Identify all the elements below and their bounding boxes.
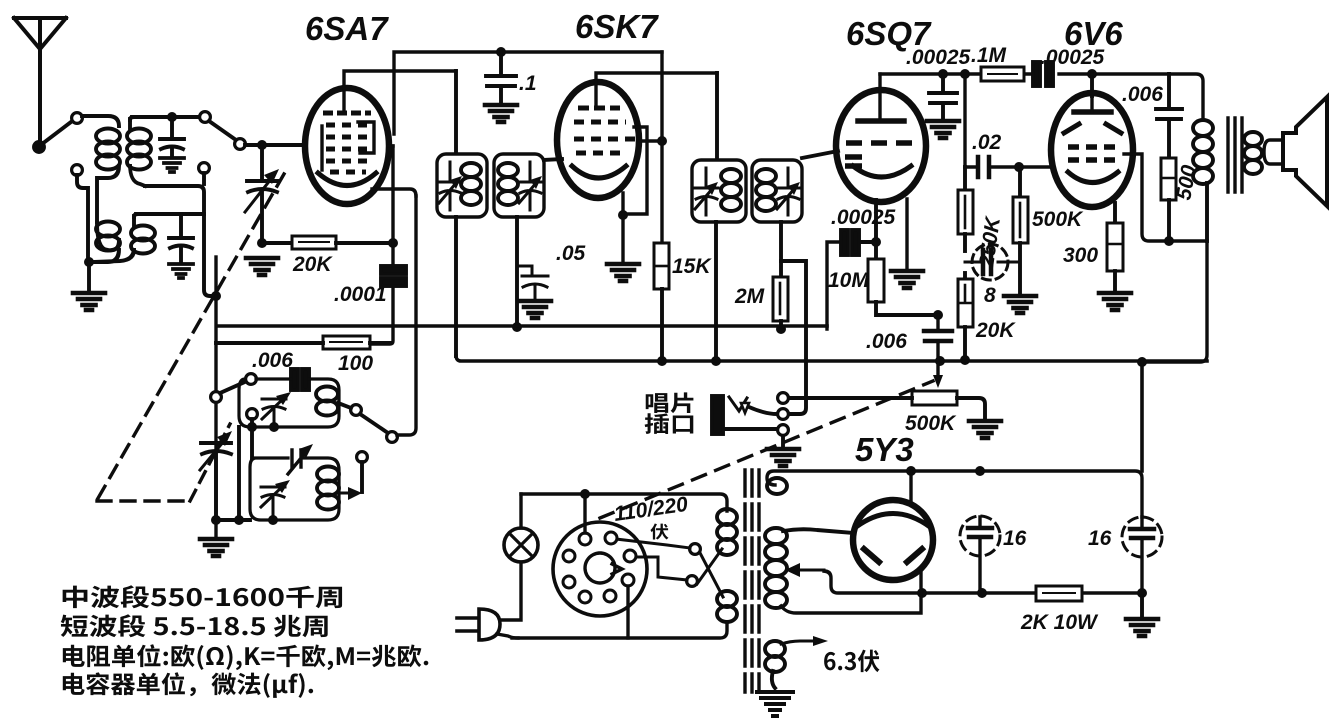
svg-text:6V6: 6V6 <box>1064 15 1123 52</box>
wire 6SQ7 plate top run <box>880 74 1203 120</box>
svg-text:.02: .02 <box>972 131 1002 154</box>
antenna terminal node <box>34 142 44 152</box>
node <box>211 515 221 525</box>
resistor 100 <box>323 336 370 349</box>
wire 500K to ground <box>1018 243 1022 294</box>
label 8 <box>984 284 996 307</box>
wire IFT2 to 6SQ7 <box>802 151 838 158</box>
ground <box>969 421 1001 438</box>
wire 15K to B+ bus <box>660 289 664 362</box>
label 20K <box>292 253 333 276</box>
IFT1 primary trimmer <box>438 162 462 210</box>
svg-text:.1: .1 <box>519 72 537 95</box>
wire IFT1 primary return to B+ <box>454 217 458 356</box>
svg-text:20K: 20K <box>975 319 1016 342</box>
label .1M <box>971 44 1007 67</box>
IFT2 secondary box <box>752 160 802 222</box>
node <box>917 588 927 598</box>
speaker <box>1264 97 1327 206</box>
resistor 10M <box>868 259 884 302</box>
6SK7 cathode lead <box>621 193 624 262</box>
svg-text:8: 8 <box>984 284 996 307</box>
dashed gang line left <box>97 174 284 500</box>
AVC bus <box>217 324 827 328</box>
label 电阻单位 <box>63 644 429 670</box>
wire 6V6 grid lead <box>1090 74 1094 96</box>
label 250K <box>975 214 1005 270</box>
wire IFT2 primary return <box>714 222 718 362</box>
dashed gang line bottom <box>97 499 190 502</box>
5Y3 plate lead <box>909 471 912 504</box>
HV secondary winding <box>765 528 787 608</box>
switch contact <box>247 409 258 420</box>
oscillator grid leak line <box>370 146 393 344</box>
6SK7 screen wire <box>640 139 662 142</box>
svg-text:20K: 20K <box>292 253 333 276</box>
resistor 20K <box>292 236 336 249</box>
6V6 internal grids <box>1068 147 1115 160</box>
band switch arm S1a <box>42 122 71 144</box>
bottom wire osc <box>216 518 250 522</box>
label 16 <box>1088 527 1112 550</box>
node <box>935 356 945 366</box>
label 唱片 <box>646 392 694 413</box>
6SQ7 plate lead and bar <box>858 74 904 121</box>
wire IFT1 secondary return <box>515 217 519 326</box>
switch contact SW osc tap <box>357 452 368 463</box>
svg-text:.006: .006 <box>1122 83 1163 106</box>
node <box>1137 588 1147 598</box>
socket pin lead top <box>583 494 586 533</box>
label .00025 <box>831 206 896 229</box>
B+ drop wire <box>1140 362 1144 471</box>
selector wire upper <box>616 539 690 548</box>
node <box>388 238 398 248</box>
oscillator MW trimmer <box>262 392 291 427</box>
wire MW box to bottom <box>237 427 241 520</box>
capacitor .006 plate bypass <box>1156 74 1182 158</box>
HV winding bottom lead <box>781 568 921 613</box>
oscillator switch arm <box>220 381 247 393</box>
node <box>496 47 506 57</box>
tube 6SA7 envelope <box>305 88 389 204</box>
label 500K <box>905 412 957 435</box>
node <box>938 69 948 79</box>
node <box>167 112 177 122</box>
6SA7 plate lead <box>344 71 456 110</box>
resistor 2K10W <box>1036 586 1082 601</box>
wire cap to grid node <box>859 200 876 259</box>
IFT1 secondary coil <box>498 163 518 205</box>
svg-text:.00025: .00025 <box>831 206 896 229</box>
node <box>960 355 970 365</box>
label .00025 <box>906 46 971 69</box>
node <box>580 489 590 499</box>
filter capacitor 16 input <box>960 516 1000 593</box>
wire AVC dropper <box>963 74 966 167</box>
node <box>871 237 881 247</box>
volume potentiometer 500K <box>912 391 957 405</box>
phono jack plug symbol <box>729 397 749 413</box>
label 2K10W <box>1020 611 1099 634</box>
resistor 500K grid <box>1013 167 1028 243</box>
wire pot to ground <box>957 398 985 419</box>
label 6.3伏 <box>824 650 879 673</box>
node <box>257 238 267 248</box>
svg-text:.05: .05 <box>556 242 586 265</box>
label 15K <box>672 255 712 278</box>
label 6SA7 <box>305 10 389 47</box>
ground <box>1126 619 1158 636</box>
svg-text:5Y3: 5Y3 <box>855 431 914 468</box>
wire jack sleeve <box>723 427 777 431</box>
oscillator SW coil <box>317 467 339 510</box>
selector wire lower <box>634 557 687 580</box>
wire 2M to AVC bus <box>779 321 783 329</box>
label 16 <box>1003 527 1027 550</box>
HV top loop <box>767 478 787 494</box>
6SA7 internal grids <box>323 113 371 172</box>
6SK7 internal grids <box>574 108 637 153</box>
pilot lamp <box>504 528 538 562</box>
wire to main ground <box>1140 596 1144 617</box>
grid row exit right <box>372 146 416 196</box>
node <box>657 136 667 146</box>
resistor .1M <box>981 67 1024 81</box>
transformer core <box>1228 118 1242 192</box>
node <box>906 466 916 476</box>
switch contact <box>211 392 222 403</box>
lamp leads <box>497 494 521 620</box>
wire to grid <box>245 143 306 147</box>
tube 6SQ7 envelope <box>836 90 926 202</box>
phono contact <box>778 393 789 404</box>
trimmer capacitor C2 <box>169 214 193 262</box>
node <box>247 422 257 432</box>
HV secondary top wire <box>767 471 1142 517</box>
tube 6SK7 envelope <box>557 82 639 198</box>
wire <box>336 241 393 245</box>
6V6 grid bar <box>1074 96 1111 112</box>
dashed gang line to volume <box>600 381 933 518</box>
wire 6SK7 plate to IFT2 <box>715 73 719 160</box>
left spine <box>214 296 217 537</box>
oscillator grid riser <box>397 196 416 435</box>
coil L4 RF secondary SW <box>93 216 155 262</box>
node <box>618 210 628 220</box>
svg-text:.1M: .1M <box>971 44 1007 67</box>
wire contact down <box>250 419 254 458</box>
ground <box>169 264 193 278</box>
socket center keyway <box>585 553 622 583</box>
tube socket circle <box>553 522 647 616</box>
wire 6SA7 plate to IFT1 <box>454 71 458 154</box>
6SA7 cathode arc <box>318 173 376 186</box>
node <box>512 322 522 332</box>
label 6V6 <box>1064 15 1123 52</box>
variable capacitor oscillator C4 <box>200 431 232 520</box>
choke output wire <box>824 571 1142 593</box>
filament bottom to ground <box>772 671 775 688</box>
socket pins <box>563 532 636 603</box>
label 5Y3 <box>855 431 914 468</box>
phono contact <box>778 409 789 420</box>
node <box>234 515 244 525</box>
ground <box>767 449 799 466</box>
resistor 15K <box>654 243 669 289</box>
label 500K <box>1032 208 1084 231</box>
resistor 20K cathode <box>958 273 973 327</box>
resistor 500 <box>1161 158 1176 200</box>
switch contact <box>200 112 211 123</box>
capacitor .00025 diode <box>841 230 859 255</box>
antenna <box>14 18 66 140</box>
node <box>211 291 221 301</box>
6V6 cathode lead <box>1113 203 1117 223</box>
node <box>1137 357 1147 367</box>
AVC bus riser <box>827 242 841 329</box>
svg-text:.0001: .0001 <box>334 283 387 306</box>
voltage selector crossover <box>697 549 723 597</box>
tube 5Y3 envelope <box>853 500 933 580</box>
wire 10M to .006 <box>876 302 938 315</box>
socket pin lead bottom <box>626 586 629 638</box>
switch contact <box>72 113 83 124</box>
ground <box>891 271 923 288</box>
label .02 <box>972 131 1002 154</box>
switch contact <box>351 405 362 416</box>
ground <box>519 301 551 318</box>
wire 300 to ground <box>1113 271 1117 291</box>
switch contact <box>235 139 246 150</box>
label .05 <box>556 242 586 265</box>
IFT2 secondary trimmer <box>776 168 800 215</box>
ground <box>246 258 278 275</box>
capacitor .05 <box>517 266 548 299</box>
wire <box>87 262 91 291</box>
oscillator SW box <box>250 458 339 520</box>
label 10M <box>828 269 869 292</box>
screen supply drop wire <box>660 52 663 243</box>
svg-text:6SQ7: 6SQ7 <box>846 15 932 52</box>
label 6SK7 <box>575 8 659 45</box>
wire lower RF unit bottom <box>145 186 216 296</box>
filter capacitor 16 output <box>1122 517 1162 596</box>
selector contact <box>690 544 701 555</box>
wire arrow to volume wiper <box>933 361 943 388</box>
wire to phono tap <box>781 261 806 414</box>
label 电容器单位 <box>63 672 313 698</box>
ground heater <box>757 692 793 716</box>
IFT2 secondary coil <box>756 169 776 211</box>
ground <box>160 158 184 172</box>
switch contact <box>246 374 257 385</box>
label 500K pot <box>0 0 2 2</box>
oscillator SW series cap <box>288 444 313 474</box>
capacitor .00025 coupling <box>1033 62 1053 86</box>
coil L2 antenna SW primary <box>92 222 120 263</box>
node <box>933 310 943 320</box>
wire contact to ground <box>781 436 785 447</box>
left spine riser <box>214 257 217 296</box>
6V6 cathode arc <box>1068 172 1118 183</box>
label .1 <box>519 72 537 95</box>
wire coil to contact <box>338 403 351 408</box>
node <box>1087 69 1097 79</box>
phono jack body <box>712 396 723 434</box>
switch contact <box>72 165 83 176</box>
svg-text:15K: 15K <box>672 255 712 278</box>
label 300 <box>1063 244 1098 267</box>
capacitor .006 volume coupling <box>924 315 952 361</box>
capacitor .0001 <box>381 266 406 286</box>
ground <box>927 121 959 138</box>
label .006 <box>866 330 907 353</box>
node <box>269 422 279 432</box>
band switch arm S1b <box>209 121 236 140</box>
trimmer capacitor C1 <box>160 117 184 156</box>
wire transformer return <box>1142 241 1207 362</box>
ground <box>73 293 105 310</box>
wire 20K to bus <box>963 327 967 360</box>
IFT1 secondary trimmer <box>518 162 542 210</box>
wire stub <box>202 173 206 184</box>
6SQ7 cathode arc <box>853 166 911 177</box>
wire 250K to bias cell <box>963 234 967 251</box>
wire RF secondary top <box>130 117 200 120</box>
label 伏 <box>650 524 668 540</box>
6V6 plate wire <box>1124 154 1207 241</box>
node <box>711 356 721 366</box>
6SA7 right grid bracket <box>358 122 374 153</box>
node <box>977 588 987 598</box>
resistor 300 <box>1107 223 1123 271</box>
power transformer core <box>745 470 759 692</box>
label 100 <box>338 352 373 375</box>
svg-text:16: 16 <box>1003 527 1027 550</box>
6SK7 suppressor hook <box>623 127 647 214</box>
wire 500 to plate line <box>1167 200 1171 241</box>
oscillator MW coil <box>316 387 338 416</box>
svg-text:300: 300 <box>1063 244 1098 267</box>
IFT2 primary coil <box>721 169 741 211</box>
switch contact SW tap <box>199 163 210 174</box>
5Y3 anode arc <box>856 514 930 528</box>
resistor 250K <box>958 167 973 234</box>
label 6SQ7 <box>846 15 932 52</box>
svg-text:.006: .006 <box>252 349 293 372</box>
node <box>1164 236 1174 246</box>
capacitor .1 <box>486 52 516 103</box>
label .00025 <box>1040 46 1105 69</box>
6SA7 left grid rail <box>320 126 323 170</box>
variable capacitor tuning C3 <box>245 145 279 243</box>
svg-text:6SA7: 6SA7 <box>305 10 389 47</box>
capacitor .00025 bypass <box>929 74 957 119</box>
wire IFT2 secondary return <box>779 222 783 261</box>
ground <box>1004 296 1036 313</box>
wire lower unit top <box>134 214 204 217</box>
wire screen B+ top <box>394 52 662 134</box>
coil L1 antenna MW primary <box>96 129 120 223</box>
svg-text:16: 16 <box>1088 527 1112 550</box>
svg-text:.006: .006 <box>866 330 907 353</box>
ground <box>200 539 232 556</box>
oscillator section feed wire <box>216 341 390 345</box>
svg-text:6SK7: 6SK7 <box>575 8 659 45</box>
wire <box>77 175 88 258</box>
svg-text:2K 10W: 2K 10W <box>1020 611 1099 634</box>
6V6 beam plates <box>1064 124 1121 133</box>
node <box>1014 162 1024 172</box>
B+ bus <box>456 356 1207 361</box>
6SQ7 cathode ground lead <box>905 199 908 269</box>
oscillator padder .006 <box>291 369 309 390</box>
HV winding top lead <box>783 529 854 533</box>
switch contact <box>387 432 398 443</box>
label .0001 <box>334 283 387 306</box>
IFT1 primary box <box>437 154 487 217</box>
5Y3 filament marks <box>864 549 922 562</box>
label 500 <box>1172 163 1201 202</box>
label 插口 <box>645 413 694 434</box>
oscillator SW trimmer <box>261 480 290 520</box>
capacitor .02 <box>965 157 1053 177</box>
node <box>657 356 667 366</box>
phono contact <box>778 425 789 436</box>
label 110/220 <box>612 493 689 526</box>
HV winding center tap <box>785 563 824 577</box>
svg-text:100: 100 <box>338 352 373 375</box>
label 中波段550-1600千周 <box>63 585 342 608</box>
mains plug <box>457 609 518 640</box>
IFT1 secondary box <box>494 154 544 217</box>
ground <box>607 264 639 281</box>
filament winding 6.3V <box>765 641 785 672</box>
selector contact <box>687 576 698 587</box>
IFT2 primary trimmer <box>694 168 718 215</box>
6SQ7 diode plates <box>845 143 917 166</box>
label 20K <box>975 319 1016 342</box>
primary top wire <box>521 494 727 511</box>
wire SW coil tap arrow <box>338 487 362 500</box>
label 短波段 5.5-18.5 兆周 <box>61 614 328 637</box>
coil L3 RF secondary MW <box>127 119 151 186</box>
filament top lead arrow <box>781 636 828 646</box>
oscillator MW box <box>239 379 339 427</box>
IFT2 primary box <box>692 160 746 222</box>
svg-text:500K: 500K <box>1032 208 1084 231</box>
primary winding upper <box>717 509 737 555</box>
wire <box>82 116 119 126</box>
wire stub contact <box>360 462 364 492</box>
tube 6V6 envelope <box>1051 93 1133 207</box>
label .006 <box>252 349 293 372</box>
svg-text:2M: 2M <box>734 285 765 308</box>
svg-text:10M: 10M <box>828 269 869 292</box>
node <box>257 140 267 150</box>
bias cell 8 electrolytic <box>965 244 1020 280</box>
node <box>268 515 278 525</box>
wire <box>262 241 292 245</box>
dashed gang line riser <box>190 424 230 501</box>
ground <box>485 105 517 122</box>
output transformer primary <box>1193 120 1213 241</box>
label .006 <box>1122 83 1163 106</box>
wire pot to jack <box>789 396 912 400</box>
resistor 2M <box>773 261 788 321</box>
label 2M <box>734 285 765 308</box>
